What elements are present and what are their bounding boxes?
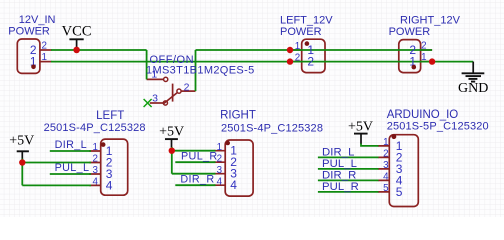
connector ARDUINO_IO pin stubs 1-5 — [378, 146, 390, 192]
svg-text:POWER: POWER — [389, 26, 431, 38]
svg-text:5: 5 — [383, 183, 389, 194]
wire net PUL_L (ARDUINO pin3) — [318, 168, 379, 170]
connector P-RIGHT_12V pin 1 stub — [421, 61, 433, 63]
switch S1 lever bar — [172, 84, 174, 102]
connector P-LEFT_12V pin 2 stub — [290, 61, 302, 63]
connector RIGHT box — [225, 140, 253, 196]
pin-1 marker LEFT_12V — [305, 41, 310, 46]
wire net DIR_L (LEFT pin1) — [50, 150, 91, 152]
svg-text:DIR_R: DIR_R — [180, 174, 214, 186]
svg-text:1: 1 — [92, 142, 97, 153]
wire LEFT +5V down — [21, 163, 23, 186]
switch S1 pin 1 contact circle — [164, 77, 168, 81]
wire net DIR_R (ARDUINO pin4) — [318, 179, 379, 181]
connector LEFT box — [101, 139, 128, 195]
power flag +5V (ARDUINO) — [348, 120, 373, 144]
svg-text:1: 1 — [217, 142, 222, 153]
wire switch pin 2 up to switched bus — [195, 50, 197, 91]
switch S1 pin 2 contact circle — [177, 89, 181, 93]
svg-text:2501S-5P_C125320: 2501S-5P_C125320 — [387, 120, 489, 132]
junction dot VCC — [73, 47, 80, 54]
power flag +5V (LEFT) — [9, 133, 34, 159]
power flag +5V (RIGHT) — [159, 125, 184, 148]
connector LEFT pin stubs 1-4 — [89, 151, 101, 185]
svg-text:1: 1 — [41, 52, 46, 63]
connector J1 pin 2 stub — [40, 49, 52, 51]
junction dot LEFT_12V pin1 — [287, 47, 293, 53]
svg-text:2: 2 — [217, 153, 222, 164]
connector P-RIGHT_12V box — [399, 40, 421, 73]
pin numbers LEFT outside — [92, 142, 98, 187]
svg-text:1MS3T1B1M2QES-5: 1MS3T1B1M2QES-5 — [146, 64, 255, 76]
svg-text:3: 3 — [152, 92, 158, 104]
wire net PUL_R (ARDUINO pin5) — [318, 191, 379, 193]
pin-1 marker RIGHT_12V — [412, 65, 417, 70]
switch S1 lever diagonal — [163, 93, 177, 105]
svg-text:3: 3 — [217, 165, 223, 176]
connector J1 pin 1 stub — [40, 61, 52, 63]
svg-text:DIR_L: DIR_L — [55, 139, 87, 151]
svg-text:4: 4 — [383, 171, 389, 182]
connector P-RIGHT_12V pin 2 stub — [421, 49, 433, 51]
connector ARDUINO_IO box — [389, 135, 418, 207]
svg-text:2501S-4P_C125328: 2501S-4P_C125328 — [44, 122, 146, 134]
svg-text:POWER: POWER — [280, 26, 322, 38]
svg-text:ARDUINO_IO: ARDUINO_IO — [387, 109, 459, 121]
svg-text:LEFT_12V: LEFT_12V — [280, 15, 333, 27]
pin-1 marker RIGHT — [225, 141, 230, 146]
svg-text:1: 1 — [151, 69, 157, 81]
ground symbol GND — [458, 62, 488, 97]
pin numbers RIGHT outside — [217, 142, 223, 188]
svg-text:RIGHT_12V: RIGHT_12V — [400, 15, 461, 27]
wire vertical top bus to switch pin 1 — [146, 50, 148, 79]
svg-text:1: 1 — [295, 41, 300, 52]
switch S1 pin 2 stub — [181, 90, 195, 92]
power flag VCC — [62, 24, 92, 50]
svg-text:PUL_R: PUL_R — [322, 181, 359, 193]
wire top switched bus — [196, 49, 433, 51]
svg-text:LEFT: LEFT — [96, 110, 124, 122]
wire RIGHT pin1 +5V — [172, 150, 216, 152]
svg-text:4: 4 — [92, 177, 98, 188]
wire bottom bus — [51, 61, 473, 63]
wire ARDUINO +5V elbow to pin1 — [361, 144, 379, 146]
wire +5V stem to junction (LEFT) — [21, 159, 23, 163]
svg-text:DIR_L: DIR_L — [322, 146, 355, 158]
wire LEFT pin2 +5V — [22, 162, 91, 164]
pin names LEFT inside — [106, 144, 113, 192]
svg-text:2: 2 — [295, 52, 300, 63]
svg-text:2: 2 — [92, 154, 97, 165]
connector RIGHT pin stubs 1-4 — [214, 151, 226, 186]
junction dot RIGHT_12V pin1 — [429, 58, 435, 64]
svg-text:1: 1 — [383, 137, 388, 148]
junction dot RIGHT +5V — [169, 148, 175, 154]
switch S1 pin 1 stub — [147, 78, 164, 80]
junction dot LEFT_12V pin2 — [287, 58, 293, 64]
svg-text:POWER: POWER — [8, 25, 50, 37]
svg-text:12V_IN: 12V_IN — [19, 14, 56, 26]
wire net PUL_L (LEFT pin3) — [50, 173, 91, 175]
svg-text:5: 5 — [396, 185, 403, 199]
svg-text:1: 1 — [421, 52, 426, 63]
svg-text:2: 2 — [184, 82, 190, 94]
connector P-LEFT_12V pin 1 stub — [290, 49, 302, 51]
wire RIGHT +5V down — [171, 151, 173, 174]
svg-text:2: 2 — [307, 54, 314, 68]
pin names RIGHT inside — [230, 144, 237, 193]
wire +5V stem to junction (RIGHT) — [171, 147, 173, 151]
svg-text:RIGHT: RIGHT — [220, 109, 256, 121]
pin-1 marker ARDUINO — [392, 134, 397, 139]
no-connect X on switch pin 3 — [144, 99, 152, 107]
svg-text:+5V: +5V — [159, 125, 184, 140]
svg-text:4: 4 — [106, 178, 113, 192]
wire RIGHT pin3 +5V — [172, 173, 216, 175]
svg-text:2501S-4P_C125328: 2501S-4P_C125328 — [221, 123, 323, 135]
svg-text:3: 3 — [383, 160, 389, 171]
svg-text:2: 2 — [421, 41, 426, 52]
svg-text:2: 2 — [41, 41, 46, 52]
svg-text:2: 2 — [383, 148, 388, 159]
svg-text:VCC: VCC — [62, 24, 92, 40]
svg-text:PUL_L: PUL_L — [55, 162, 90, 174]
switch S1 pin 3 contact circle — [163, 101, 167, 105]
pin numbers ARDUINO outside — [383, 137, 389, 194]
connector J1 12V_IN box — [17, 39, 40, 73]
svg-text:+5V: +5V — [9, 133, 34, 148]
pin names ARDUINO inside — [396, 139, 403, 199]
wire net DIR_L (ARDUINO pin2) — [318, 156, 379, 158]
svg-text:3: 3 — [92, 165, 98, 176]
switch S1 pin 3 stub — [150, 102, 164, 104]
svg-text:4: 4 — [230, 178, 237, 192]
svg-text:DIR_R: DIR_R — [322, 169, 356, 181]
svg-text:PUL_R: PUL_R — [181, 151, 218, 163]
svg-text:4: 4 — [217, 176, 223, 187]
svg-text:PUL_L: PUL_L — [322, 158, 357, 170]
pin-1 marker LEFT — [101, 142, 106, 147]
junction dot LEFT +5V — [19, 159, 25, 165]
wire LEFT pin4 +5V — [22, 184, 91, 186]
wire net PUL_R (RIGHT pin2) — [175, 161, 215, 163]
svg-text:GND: GND — [458, 81, 488, 96]
svg-text:+5V: +5V — [348, 120, 373, 135]
wire net DIR_R (RIGHT pin4) — [175, 184, 215, 186]
connector P-LEFT_12V box — [302, 39, 325, 72]
wire top bus VCC segment — [51, 49, 147, 51]
pin-1 marker J1 — [31, 65, 36, 70]
